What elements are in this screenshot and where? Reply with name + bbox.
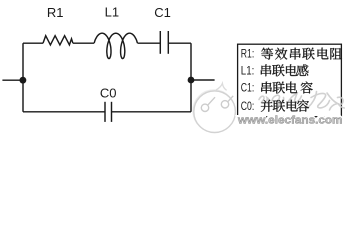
- wire: bottom right segment: [112, 111, 192, 113]
- svg-text:L1: L1: [105, 5, 119, 20]
- wire: L1 to C1: [137, 42, 160, 44]
- svg-text:R1:: R1:: [241, 47, 255, 61]
- resistor R1: [43, 36, 73, 45]
- capacitor C0 right plate: [111, 102, 113, 122]
- wire: top right segment: [168, 42, 191, 44]
- wire: right terminal: [191, 79, 215, 81]
- svg-text:C0: C0: [100, 85, 117, 100]
- svg-text:www.elecfans.com: www.elecfans.com: [237, 115, 343, 127]
- inductor L1: [94, 33, 137, 58]
- svg-text:L1:: L1:: [241, 63, 255, 77]
- capacitor C1 left plate: [159, 31, 161, 54]
- wire: bottom left segment: [23, 111, 105, 113]
- watermark logo circle: [193, 83, 235, 132]
- capacitor C1 right plate: [167, 31, 169, 54]
- legend box: [238, 44, 342, 117]
- wire: left vertical: [22, 43, 24, 112]
- wire: R1 to L1: [73, 42, 94, 44]
- node: right junction dot: [188, 77, 195, 84]
- watermark cursive script: [259, 92, 345, 111]
- svg-text:C1: C1: [154, 5, 171, 20]
- capacitor C0 left plate: [104, 102, 106, 122]
- circuit wires: [2, 31, 214, 122]
- wire: left terminal: [2, 79, 23, 81]
- node: left junction dot: [20, 77, 27, 84]
- wire: right vertical: [190, 43, 192, 112]
- svg-text:C0:: C0:: [241, 99, 255, 113]
- svg-text:R1: R1: [47, 5, 64, 20]
- svg-text:C1:: C1:: [241, 81, 255, 95]
- wire: top left segment: [23, 42, 43, 44]
